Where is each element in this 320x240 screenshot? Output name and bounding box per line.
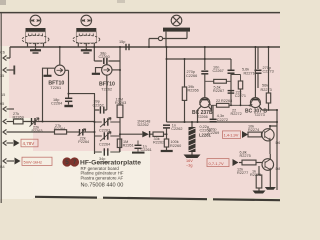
trimmer pot P2263 — [32, 118, 36, 125]
svg-text:R2261: R2261 — [123, 144, 134, 148]
svg-text:R2273: R2273 — [261, 88, 272, 92]
svg-text:C6: C6 — [0, 51, 5, 55]
capacitor C2272 — [210, 119, 217, 122]
arrow into R2274 — [242, 131, 248, 138]
svg-text:Piastra generatore AF: Piastra generatore AF — [81, 175, 124, 180]
svg-text:D2262: D2262 — [138, 123, 149, 127]
ground at T2261 base — [44, 75, 52, 77]
resistor R2267 — [214, 79, 227, 83]
bottom border line — [35, 197, 280, 200]
trimmer capacitor C2263 — [104, 118, 108, 125]
wire diode row — [120, 133, 167, 135]
resistor R2264 — [55, 130, 67, 134]
svg-text:B4: B4 — [0, 165, 5, 169]
svg-text:R2266: R2266 — [188, 89, 199, 93]
capacitor C2273 — [257, 47, 259, 88]
measured-value box pin6 — [21, 139, 38, 147]
svg-text:C2264: C2264 — [51, 101, 62, 105]
measured-value box Q4 row — [207, 159, 229, 167]
svg-text:35: 35 — [0, 74, 4, 78]
svg-text:1,4-1,9V: 1,4-1,9V — [224, 133, 239, 138]
ground bar under C2261 — [132, 152, 145, 154]
choke L2281 — [191, 122, 193, 127]
svg-text:D8: D8 — [276, 167, 281, 171]
connector pin 3 — [3, 107, 14, 112]
ground under coil L2261 — [30, 50, 41, 53]
svg-text:C2271: C2271 — [235, 94, 246, 98]
resistor R2276h — [239, 162, 242, 164]
transistor T2261 — [43, 47, 66, 122]
svg-text:C2260: C2260 — [99, 55, 110, 59]
measured-value box Q3 row — [223, 131, 241, 139]
ground under L2281 — [184, 155, 201, 159]
svg-text:T2261: T2261 — [50, 86, 61, 90]
trimmer capacitor C2264b — [104, 132, 108, 139]
coil L2263 fixed core — [149, 15, 190, 47]
svg-text:15p: 15p — [119, 40, 125, 44]
white block bottom-left — [0, 118, 33, 210]
svg-text:D6: D6 — [276, 141, 281, 145]
ground under T2275 emitter — [265, 187, 276, 190]
capacitor C2259 on rail — [126, 44, 129, 50]
svg-text:BFT10: BFT10 — [99, 81, 115, 87]
background paper — [0, 0, 280, 210]
svg-text:05: 05 — [0, 102, 4, 106]
ground under C2264 — [64, 105, 73, 107]
svg-text:No.75008 440 00: No.75008 440 00 — [81, 183, 124, 189]
svg-text:R2262: R2262 — [153, 141, 164, 145]
white strip left connectors — [0, 46, 9, 120]
svg-text:56k: 56k — [262, 84, 268, 88]
left scan edge line — [0, 13, 2, 203]
capacitor C2271 — [228, 91, 235, 94]
capacitor C2267 — [230, 59, 232, 105]
svg-text:R2260: R2260 — [170, 144, 181, 148]
svg-text:T2266: T2266 — [197, 115, 208, 119]
svg-text:C2272: C2272 — [217, 118, 228, 122]
trimmer pot P2264 — [80, 129, 83, 136]
resistor R2263 — [119, 70, 121, 105]
page corner mark — [0, 0, 6, 5]
svg-text:R2272: R2272 — [231, 112, 242, 116]
ground under coil L2262 — [81, 50, 92, 53]
transistor T2275 — [262, 154, 274, 187]
svg-text:4,78V: 4,78V — [23, 141, 35, 146]
right rail — [276, 110, 278, 190]
resistor R2271 vertical — [231, 75, 241, 82]
connector pin 2 with stub capacitor — [3, 66, 14, 75]
wire supply rail — [10, 46, 280, 48]
diode D2262 — [142, 131, 149, 137]
svg-text:R2277: R2277 — [237, 171, 248, 175]
section number 5 — [62, 157, 71, 166]
section number 7 — [70, 157, 79, 166]
svg-text:R2276: R2276 — [250, 173, 261, 177]
arrow into Q4 base wire — [233, 159, 239, 166]
svg-text:R2271: R2271 — [244, 71, 255, 75]
svg-text:22: 22 — [216, 99, 220, 103]
svg-text:R2268: R2268 — [221, 99, 232, 103]
coil L2262 with trimmer core — [73, 15, 100, 49]
transistor T2262 — [96, 61, 113, 75]
svg-text:C2262: C2262 — [93, 103, 104, 107]
svg-text:P2263: P2263 — [32, 129, 43, 133]
connector pin 7 with measuring arrow — [3, 159, 14, 164]
transistor T2274 — [262, 126, 278, 154]
svg-text:T2273: T2273 — [254, 113, 265, 117]
measured-value box pin7 — [22, 157, 52, 165]
svg-text:R2267: R2267 — [213, 89, 224, 93]
capacitor C2261 — [135, 145, 142, 148]
connector pin 1 — [3, 47, 10, 61]
svg-text:5mV-1kHz: 5mV-1kHz — [24, 159, 42, 164]
svg-text:R2275: R2275 — [240, 154, 251, 158]
resistor R2276 vertical — [258, 166, 260, 175]
svg-text:C2262: C2262 — [171, 127, 182, 131]
coil L2261 with trimmer core — [22, 15, 49, 49]
svg-text:C2264: C2264 — [99, 143, 110, 147]
pink board region — [0, 13, 280, 198]
transistor T2266 — [198, 98, 214, 122]
resistor R2262m — [153, 132, 164, 136]
resistor R2274 — [248, 132, 262, 137]
svg-text:C2267: C2267 — [213, 69, 224, 73]
svg-text:5: 5 — [65, 159, 69, 166]
svg-text:R2263: R2263 — [115, 101, 126, 105]
resistor R2260 vertical — [164, 139, 168, 147]
signal wire W2 — [167, 121, 278, 123]
resistor R2261 vertical — [117, 139, 121, 148]
ground under R2276 — [258, 188, 260, 191]
top border line — [0, 12, 280, 14]
svg-text:0,7-1,7V: 0,7-1,7V — [209, 161, 224, 166]
svg-text:16V: 16V — [186, 159, 193, 163]
resistor R2266 vertical — [184, 59, 186, 122]
svg-text:15: 15 — [1, 93, 5, 97]
svg-text:R2269: R2269 — [13, 116, 24, 120]
ground at T2262 base — [92, 73, 100, 75]
connector pin 4 — [3, 119, 14, 124]
connector pin 5 — [3, 130, 55, 135]
svg-text:R2274: R2274 — [248, 128, 259, 132]
svg-text:C2266: C2266 — [186, 74, 197, 78]
capacitor C2260 — [94, 47, 120, 70]
svg-text:T2262: T2262 — [101, 88, 112, 92]
resistor R2268 — [217, 103, 230, 107]
ground bar under R2260 — [161, 150, 173, 152]
svg-text:P2264: P2264 — [78, 140, 89, 144]
cream below bottom border — [0, 199, 280, 210]
capacitor C2264 — [69, 93, 96, 95]
capacitor C2262b — [163, 125, 170, 128]
connector pin 6 with measuring arrow — [3, 141, 13, 146]
white title area — [33, 151, 150, 198]
svg-text:C2268: C2268 — [200, 128, 211, 132]
resistor R2269 — [14, 121, 95, 123]
svg-text:R2264: R2264 — [54, 127, 65, 131]
oscillator output wire — [167, 47, 232, 122]
svg-text:7: 7 — [73, 159, 77, 166]
svg-text:~3g: ~3g — [186, 164, 192, 168]
svg-text:C2261: C2261 — [141, 148, 152, 152]
transistor T2273 — [248, 47, 277, 110]
capacitor C2266 — [204, 47, 206, 70]
capacitor C2262 — [95, 94, 107, 154]
capacitor C2265 — [104, 148, 108, 155]
resistor R2273 vertical — [268, 47, 270, 93]
